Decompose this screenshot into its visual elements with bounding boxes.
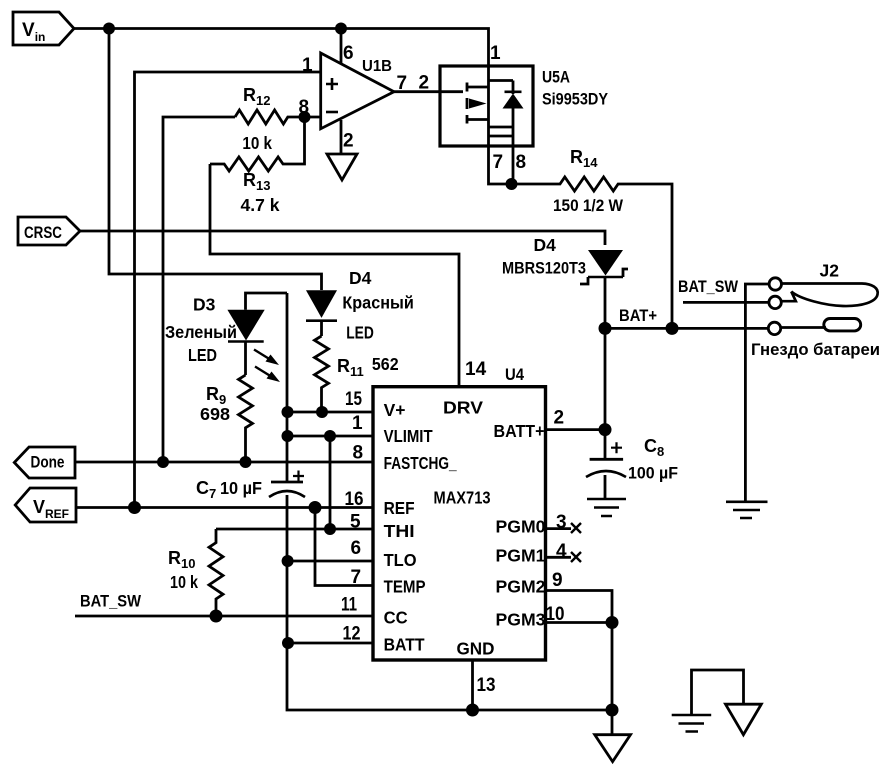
node GND junction xyxy=(466,704,479,717)
svg-text:LED: LED xyxy=(188,345,217,365)
svg-text:PGM2: PGM2 xyxy=(496,577,546,597)
wire BAT+ down to C8 xyxy=(604,328,607,459)
svg-text:CRSC: CRSC xyxy=(24,224,62,242)
svg-text:U5A: U5A xyxy=(542,68,570,87)
node PGM0 x mark xyxy=(571,523,581,533)
svg-text:D3: D3 xyxy=(193,295,216,315)
node Vin junction xyxy=(103,23,115,35)
wire C8 to ground xyxy=(604,475,607,499)
node V+ junction b xyxy=(316,406,328,418)
svg-text:12: 12 xyxy=(343,624,361,645)
ground signal triangle bottom xyxy=(595,735,631,762)
node BATT+ pin junction xyxy=(599,423,612,436)
capacitor C8 xyxy=(586,436,678,483)
wire Vin to red LED D4 xyxy=(109,29,322,291)
wire VLIMIT to THI xyxy=(329,436,332,529)
wire D3 anode net down to C7 xyxy=(286,293,289,482)
svg-text:D4: D4 xyxy=(534,235,557,255)
wire VREF to opamp pin1 xyxy=(135,72,321,508)
svg-text:J2: J2 xyxy=(820,261,840,281)
op-amp U1B xyxy=(299,43,430,152)
resistor R13 xyxy=(210,117,305,215)
resistor R12 xyxy=(235,85,321,153)
svg-text:11: 11 xyxy=(341,595,357,616)
wire PGM3 pin10 xyxy=(546,621,613,624)
ground J2 earth xyxy=(726,502,768,518)
resistor R10 xyxy=(168,529,223,616)
LED D4 red xyxy=(306,268,414,343)
ground C8 earth xyxy=(587,499,626,516)
svg-text:6: 6 xyxy=(343,43,354,64)
node Vin tag xyxy=(13,12,74,45)
svg-text:LED: LED xyxy=(346,323,374,343)
svg-text:9: 9 xyxy=(552,570,563,591)
node opamp inverting junction xyxy=(299,111,311,123)
svg-text:C7: C7 xyxy=(196,478,216,501)
diode D4 MBRS120T3 xyxy=(502,235,628,284)
node R10 junction xyxy=(210,610,223,623)
svg-text:VREF: VREF xyxy=(33,497,69,521)
wire D4 cathode to BAT+ xyxy=(604,277,607,328)
node VREF junction a xyxy=(128,501,141,514)
svg-text:D4: D4 xyxy=(349,268,372,288)
node Done junction a xyxy=(157,456,169,468)
node PGM1 x mark xyxy=(571,552,581,562)
node REF junction b xyxy=(309,501,322,514)
wire C7 bottom to rail xyxy=(287,495,612,710)
node bottom rail junction xyxy=(606,704,619,717)
wire VLIMIT pin1 xyxy=(288,435,374,438)
svg-text:Гнездо батареи: Гнездо батареи xyxy=(751,340,880,359)
svg-text:BAT_SW: BAT_SW xyxy=(80,592,142,611)
wire PGM1 pin4 xyxy=(546,556,572,559)
svg-text:VLIMIT: VLIMIT xyxy=(384,426,433,446)
svg-text:4.7 k: 4.7 k xyxy=(241,195,280,215)
svg-text:BAT+: BAT+ xyxy=(619,306,657,325)
svg-text:MAX713: MAX713 xyxy=(434,488,491,508)
wire CRSC to D4 anode xyxy=(80,231,605,245)
svg-text:100 µF: 100 µF xyxy=(628,464,678,483)
wire opamp output to U5A gate xyxy=(394,90,463,93)
svg-text:10 k: 10 k xyxy=(242,133,272,153)
svg-text:R10: R10 xyxy=(168,548,195,571)
svg-text:7: 7 xyxy=(493,152,504,173)
node Done junction b xyxy=(240,456,252,468)
svg-text:8: 8 xyxy=(516,152,527,173)
svg-text:R12: R12 xyxy=(243,85,270,108)
node PGM3 junction xyxy=(606,616,619,629)
svg-text:FASTCHG_: FASTCHG_ xyxy=(384,453,457,473)
svg-text:R14: R14 xyxy=(570,147,598,170)
svg-text:13: 13 xyxy=(477,675,496,696)
ground opamp (signal triangle) xyxy=(327,154,357,180)
svg-text:1: 1 xyxy=(352,413,363,434)
transistor U5A Si9953DY xyxy=(440,43,609,184)
svg-text:R13: R13 xyxy=(243,170,270,193)
wire VREF to REF pin16 xyxy=(76,506,373,509)
svg-text:DRV: DRV xyxy=(443,398,483,418)
svg-text:14: 14 xyxy=(465,359,487,380)
svg-text:U1B: U1B xyxy=(362,58,392,75)
svg-text:V+: V+ xyxy=(384,400,406,420)
wire BAT_SW to CC pin11 xyxy=(75,615,373,618)
wire BATT+ pin2 xyxy=(546,428,606,431)
resistor R9 xyxy=(200,375,253,462)
svg-text:8: 8 xyxy=(353,443,364,464)
svg-text:U4: U4 xyxy=(505,365,524,384)
svg-text:2: 2 xyxy=(343,131,354,152)
wire Vin rail xyxy=(74,29,489,67)
node VLIMIT junction b xyxy=(324,430,336,442)
op-amp U4 MAX713 box xyxy=(373,359,546,660)
svg-text:Красный: Красный xyxy=(342,293,413,313)
svg-text:GND: GND xyxy=(457,639,495,659)
ground tie earth xyxy=(672,715,712,732)
node BATT junction xyxy=(282,637,294,649)
svg-text:CC: CC xyxy=(384,608,408,628)
svg-text:150 1/2 W: 150 1/2 W xyxy=(553,196,624,215)
svg-text:15: 15 xyxy=(345,389,362,410)
svg-text:Done: Done xyxy=(31,453,65,472)
svg-text:2: 2 xyxy=(554,408,565,429)
node U5A drain junction xyxy=(506,178,518,190)
node V+ junction a xyxy=(282,406,294,418)
svg-text:10: 10 xyxy=(546,604,565,625)
wire Done to R12 xyxy=(163,117,235,462)
svg-text:6: 6 xyxy=(351,538,362,559)
capacitor C7 xyxy=(196,471,305,502)
wire PGM0 pin3 xyxy=(546,527,572,530)
node opamp supply junction xyxy=(335,23,347,35)
ground tie triangle xyxy=(726,704,762,735)
svg-text:4: 4 xyxy=(556,541,567,562)
node BAT+ junction2 xyxy=(666,322,679,335)
resistor R11 xyxy=(315,336,399,412)
svg-text:Si9953DY: Si9953DY xyxy=(542,90,609,109)
wire opamp pin6 to rail xyxy=(340,29,343,64)
svg-text:PGM3: PGM3 xyxy=(496,610,546,630)
svg-text:THI: THI xyxy=(384,521,415,541)
node Done tag xyxy=(14,447,75,478)
wire Done to FASTCHG pin8 xyxy=(75,461,373,464)
svg-text:TLO: TLO xyxy=(384,550,417,570)
wire THI pin5 xyxy=(216,528,373,531)
wire rail to ground xyxy=(611,710,614,735)
svg-text:Vin: Vin xyxy=(22,20,45,44)
svg-text:BATT+: BATT+ xyxy=(494,421,545,441)
svg-text:BAT_SW: BAT_SW xyxy=(678,277,739,296)
node BAT+ junction1 xyxy=(599,322,612,335)
svg-text:562: 562 xyxy=(372,354,399,374)
node CRSC tag xyxy=(18,217,80,245)
node THI junction xyxy=(324,523,336,535)
wire PGM2 pin9 xyxy=(546,591,613,711)
svg-text:5: 5 xyxy=(350,512,361,533)
svg-text:BATT: BATT xyxy=(384,635,425,655)
svg-text:REF: REF xyxy=(384,498,415,518)
svg-text:R11: R11 xyxy=(337,356,364,379)
svg-text:10 k: 10 k xyxy=(170,572,198,592)
wire V+ pin15 xyxy=(288,411,374,414)
svg-text:MBRS120T3: MBRS120T3 xyxy=(502,259,586,278)
wire BATT pin12 xyxy=(288,642,373,645)
svg-text:1: 1 xyxy=(490,43,501,64)
svg-text:16: 16 xyxy=(345,489,364,510)
svg-text:698: 698 xyxy=(200,404,230,424)
svg-text:1: 1 xyxy=(302,55,313,76)
wire BAT+ net xyxy=(605,327,769,330)
wire ground tie bracket xyxy=(692,670,744,715)
connector J2 xyxy=(678,261,880,502)
wire R13 to DRV pin14 xyxy=(210,164,459,387)
resistor R14 xyxy=(512,147,673,328)
node VREF tag xyxy=(15,488,76,522)
svg-text:3: 3 xyxy=(556,512,567,533)
svg-text:C8: C8 xyxy=(644,436,664,459)
node TLO junction xyxy=(282,555,294,567)
wire REF to TEMP pin7 xyxy=(315,508,373,586)
node VLIMIT junction a xyxy=(282,430,294,442)
svg-text:10 µF: 10 µF xyxy=(220,478,262,498)
svg-text:PGM0: PGM0 xyxy=(496,517,546,537)
wire GND pin13 xyxy=(471,660,474,710)
svg-text:7: 7 xyxy=(351,567,362,588)
wire TLO pin6 xyxy=(288,560,373,563)
LED D3 green xyxy=(165,293,287,382)
svg-text:Зеленый: Зеленый xyxy=(165,322,237,342)
svg-text:PGM1: PGM1 xyxy=(496,546,546,566)
wire opamp pin2 down xyxy=(340,120,343,154)
svg-text:TEMP: TEMP xyxy=(384,577,426,597)
